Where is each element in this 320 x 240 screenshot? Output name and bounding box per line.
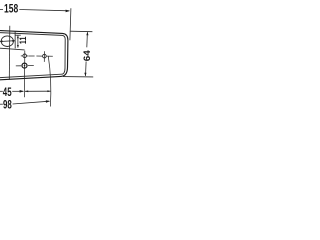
dimension 11 top tick xyxy=(15,34,20,36)
extension line right edge (for 158) xyxy=(70,8,71,40)
arrowhead 98 right xyxy=(46,100,50,103)
vertical centerline through hole 2 xyxy=(43,51,45,62)
svg-text:98: 98 xyxy=(3,97,12,111)
hole center mark 1 (circle) xyxy=(23,54,27,58)
svg-text:64: 64 xyxy=(82,49,93,61)
dimension line 158 xyxy=(19,10,69,11)
dimension 64 line lower part xyxy=(85,62,88,76)
svg-text:158: 158 xyxy=(4,2,18,16)
arrowhead 45 right xyxy=(20,90,24,93)
dimension 98 leader dash xyxy=(0,103,3,105)
hole center mark 2 (circle) xyxy=(43,54,47,58)
arrowhead chain right xyxy=(47,90,50,92)
arrowhead 64 down xyxy=(84,73,86,76)
hole centerline tick left (dark) xyxy=(1,40,3,42)
arrowhead 64 up xyxy=(86,32,88,35)
vertical centerline through hole 1 down to 45 dim xyxy=(23,51,25,98)
arrowhead chain left xyxy=(25,90,28,92)
chain dimension segment between centerline and right reference xyxy=(25,90,50,92)
extension line top (for 64) xyxy=(70,30,93,33)
arrowhead 158 right xyxy=(66,10,70,13)
hole centerline tick right (dark) xyxy=(12,40,14,42)
dimension 64 line upper part xyxy=(86,32,89,47)
svg-text:11: 11 xyxy=(18,36,29,44)
horizontal dash-dot centerline through hole centers xyxy=(21,55,23,57)
hole horizontal centerline xyxy=(0,40,15,43)
dash right of bold hole xyxy=(28,64,34,66)
extension line x=51 (shared by chain and 98) xyxy=(48,56,51,106)
dimension 11 line with arrows xyxy=(17,36,19,48)
bold hole symbol with center dot xyxy=(22,63,27,68)
frame inner outline xyxy=(0,33,65,78)
dimension 158 leader dash (cropped at left) xyxy=(0,9,3,11)
mounting plate bottom edge xyxy=(0,48,25,50)
extension line bottom (for 64) xyxy=(63,76,93,78)
frame outer outline (top arm, right arm, bottom arm) xyxy=(0,31,68,80)
dimension 98 line xyxy=(13,101,50,104)
hole vertical centerline (long) xyxy=(8,26,11,80)
mounting plate right edge xyxy=(14,31,16,48)
hole circle xyxy=(1,36,13,47)
dimension 45 leader dash xyxy=(0,90,3,92)
dimension 45 line xyxy=(12,90,23,92)
dash left of bold hole xyxy=(16,65,21,67)
